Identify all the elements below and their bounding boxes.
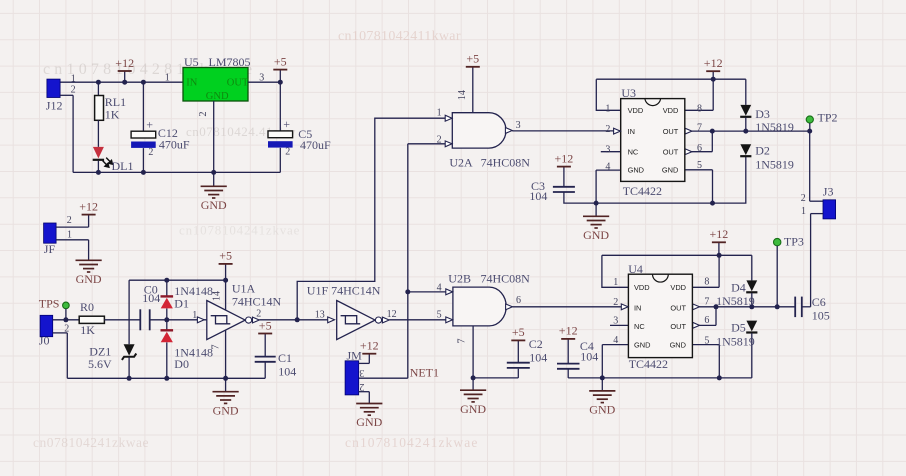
svg-text:+5: +5 bbox=[219, 249, 232, 263]
svg-text:1N5819: 1N5819 bbox=[755, 158, 794, 172]
svg-text:14: 14 bbox=[212, 291, 223, 301]
svg-text:470uF: 470uF bbox=[159, 138, 190, 152]
svg-text:5: 5 bbox=[704, 335, 709, 346]
svg-text:TP2: TP2 bbox=[818, 111, 838, 125]
svg-text:1N5819: 1N5819 bbox=[716, 294, 755, 308]
svg-text:GND: GND bbox=[201, 198, 227, 212]
svg-text:IN: IN bbox=[634, 303, 641, 312]
svg-text:74HC08N: 74HC08N bbox=[481, 272, 531, 286]
svg-text:1N5819: 1N5819 bbox=[716, 335, 755, 349]
svg-text:1: 1 bbox=[165, 73, 170, 84]
svg-text:C6: C6 bbox=[812, 295, 826, 309]
svg-text:8: 8 bbox=[697, 104, 702, 115]
svg-text:+12: +12 bbox=[115, 56, 134, 70]
svg-text:C1: C1 bbox=[278, 351, 292, 365]
svg-text:GND: GND bbox=[213, 403, 239, 417]
svg-text:1: 1 bbox=[71, 73, 76, 84]
svg-text:4: 4 bbox=[437, 282, 442, 293]
svg-text:D3: D3 bbox=[755, 107, 770, 121]
svg-text:OUT: OUT bbox=[670, 303, 686, 312]
svg-text:U5: U5 bbox=[184, 55, 199, 69]
svg-text:1K: 1K bbox=[105, 107, 120, 121]
svg-text:JF: JF bbox=[44, 242, 56, 256]
svg-text:2: 2 bbox=[437, 135, 442, 146]
svg-text:2: 2 bbox=[613, 297, 618, 308]
svg-text:74HC08N: 74HC08N bbox=[481, 156, 531, 170]
svg-text:cn10781042411kwar: cn10781042411kwar bbox=[338, 29, 461, 44]
svg-text:3: 3 bbox=[613, 316, 618, 327]
svg-text:cn1078104241zkwae: cn1078104241zkwae bbox=[345, 435, 478, 450]
svg-text:TPS: TPS bbox=[39, 296, 60, 310]
svg-text:LM7805: LM7805 bbox=[209, 55, 251, 69]
svg-text:J12: J12 bbox=[46, 99, 63, 113]
svg-text:+5: +5 bbox=[259, 318, 272, 332]
svg-text:2: 2 bbox=[198, 112, 209, 117]
svg-text:6: 6 bbox=[697, 143, 702, 154]
svg-text:5: 5 bbox=[697, 160, 702, 171]
svg-text:1: 1 bbox=[437, 108, 442, 119]
svg-text:+: + bbox=[283, 117, 290, 131]
svg-text:5.6V: 5.6V bbox=[88, 357, 112, 371]
svg-text:4: 4 bbox=[613, 335, 618, 346]
svg-text:cn1078104241zkvae: cn1078104241zkvae bbox=[179, 223, 300, 238]
svg-text:GND: GND bbox=[206, 91, 229, 102]
svg-text:1: 1 bbox=[613, 277, 618, 288]
svg-text:GND: GND bbox=[76, 272, 102, 286]
svg-text:3: 3 bbox=[605, 144, 610, 155]
svg-text:D1: D1 bbox=[174, 297, 189, 311]
svg-text:1: 1 bbox=[605, 104, 610, 115]
svg-text:+12: +12 bbox=[555, 151, 574, 165]
svg-text:+12: +12 bbox=[360, 339, 379, 353]
svg-text:1: 1 bbox=[192, 310, 197, 321]
svg-text:VDD: VDD bbox=[628, 106, 644, 115]
svg-text:104: 104 bbox=[529, 189, 547, 203]
svg-text:5: 5 bbox=[437, 309, 442, 320]
svg-text:2: 2 bbox=[71, 85, 76, 96]
svg-text:U2A: U2A bbox=[449, 156, 473, 170]
svg-text:4: 4 bbox=[605, 161, 610, 172]
svg-text:OUT: OUT bbox=[663, 148, 679, 157]
svg-text:+: + bbox=[146, 117, 153, 131]
svg-text:6: 6 bbox=[704, 315, 709, 326]
svg-text:1N5819: 1N5819 bbox=[755, 120, 794, 134]
svg-text:7: 7 bbox=[211, 345, 222, 350]
svg-text:R0: R0 bbox=[80, 300, 94, 314]
svg-text:NET1: NET1 bbox=[410, 366, 439, 380]
svg-text:1K: 1K bbox=[80, 323, 95, 337]
svg-text:7: 7 bbox=[697, 123, 702, 134]
svg-text:+12: +12 bbox=[710, 227, 729, 241]
svg-text:OUT: OUT bbox=[227, 77, 249, 88]
svg-text:GND: GND bbox=[662, 166, 678, 175]
svg-text:104: 104 bbox=[580, 349, 598, 363]
svg-text:7: 7 bbox=[704, 297, 709, 308]
svg-text:+5: +5 bbox=[466, 52, 479, 66]
svg-text:104: 104 bbox=[529, 350, 547, 364]
svg-text:14: 14 bbox=[457, 90, 468, 100]
svg-text:J3: J3 bbox=[823, 185, 834, 199]
svg-text:6: 6 bbox=[516, 295, 521, 306]
svg-text:GND: GND bbox=[628, 166, 644, 175]
svg-text:IN: IN bbox=[186, 77, 197, 88]
svg-text:U4: U4 bbox=[628, 262, 643, 276]
svg-text:13: 13 bbox=[315, 309, 325, 320]
svg-text:D0: D0 bbox=[174, 357, 189, 371]
svg-text:VDD: VDD bbox=[663, 106, 679, 115]
svg-text:D4: D4 bbox=[731, 280, 746, 294]
svg-text:D5: D5 bbox=[731, 320, 746, 334]
svg-text:74HC14N: 74HC14N bbox=[232, 294, 282, 308]
svg-text:NC: NC bbox=[634, 322, 645, 331]
svg-text:1: 1 bbox=[801, 206, 806, 217]
svg-text:8: 8 bbox=[704, 276, 709, 287]
svg-text:2: 2 bbox=[605, 124, 610, 135]
svg-text:2: 2 bbox=[801, 193, 806, 204]
svg-text:U3: U3 bbox=[621, 86, 636, 100]
svg-text:C2: C2 bbox=[529, 337, 543, 351]
svg-text:2: 2 bbox=[359, 381, 364, 392]
svg-text:12: 12 bbox=[387, 309, 397, 320]
svg-text:3: 3 bbox=[359, 367, 364, 378]
svg-text:+12: +12 bbox=[559, 324, 578, 338]
svg-text:105: 105 bbox=[812, 309, 830, 323]
svg-text:7: 7 bbox=[457, 339, 468, 344]
svg-text:2: 2 bbox=[67, 215, 72, 226]
svg-text:104: 104 bbox=[278, 365, 296, 379]
svg-text:VDD: VDD bbox=[634, 283, 650, 292]
svg-text:OUT: OUT bbox=[663, 127, 679, 136]
svg-text:OUT: OUT bbox=[670, 322, 686, 331]
svg-text:2: 2 bbox=[285, 147, 290, 158]
svg-text:IN: IN bbox=[628, 127, 635, 136]
svg-text:cn078104241zkwae: cn078104241zkwae bbox=[33, 435, 149, 450]
svg-text:1: 1 bbox=[67, 229, 72, 240]
svg-text:TC4422: TC4422 bbox=[629, 357, 668, 371]
svg-text:470uF: 470uF bbox=[300, 138, 331, 152]
svg-text:GND: GND bbox=[460, 402, 486, 416]
svg-text:J0: J0 bbox=[39, 334, 50, 348]
svg-text:GND: GND bbox=[589, 403, 615, 417]
svg-text:+5: +5 bbox=[274, 54, 287, 68]
svg-text:U1F 74HC14N: U1F 74HC14N bbox=[307, 284, 381, 298]
svg-text:+12: +12 bbox=[704, 56, 723, 70]
svg-text:NC: NC bbox=[628, 148, 639, 157]
svg-text:GND: GND bbox=[670, 341, 686, 350]
svg-text:2: 2 bbox=[148, 147, 153, 158]
svg-text:VDD: VDD bbox=[670, 283, 686, 292]
svg-text:+5: +5 bbox=[512, 325, 525, 339]
svg-text:TP3: TP3 bbox=[784, 235, 804, 249]
svg-text:U2B: U2B bbox=[448, 272, 471, 286]
svg-text:GND: GND bbox=[356, 415, 382, 429]
svg-text:+12: +12 bbox=[79, 199, 98, 213]
svg-text:GND: GND bbox=[583, 228, 609, 242]
svg-text:104: 104 bbox=[142, 291, 160, 305]
svg-text:D2: D2 bbox=[755, 144, 770, 158]
svg-text:3: 3 bbox=[516, 120, 521, 131]
svg-text:TC4422: TC4422 bbox=[623, 184, 662, 198]
svg-text:GND: GND bbox=[634, 341, 650, 350]
svg-text:DL1: DL1 bbox=[112, 159, 134, 173]
